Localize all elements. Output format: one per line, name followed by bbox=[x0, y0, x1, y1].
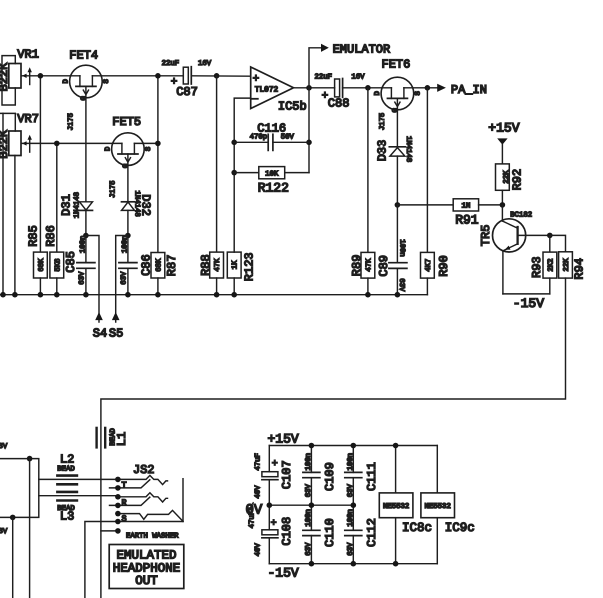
svg-text:8V: 8V bbox=[0, 443, 8, 451]
node dots 0V rail bbox=[267, 502, 273, 508]
svg-text:VR7: VR7 bbox=[17, 112, 39, 126]
svg-text:NE5532: NE5532 bbox=[425, 503, 451, 511]
svg-text:63V: 63V bbox=[305, 483, 313, 497]
inductor bead L2 bbox=[57, 453, 77, 485]
svg-text:B22K: B22K bbox=[0, 129, 11, 159]
wire PA_IN junction down to R90 bbox=[426, 88, 428, 253]
capacitor C116 470p 50V bbox=[234, 122, 309, 151]
svg-text:EMULATOR: EMULATOR bbox=[333, 43, 391, 57]
wire FET4 source to C87 bbox=[92, 75, 183, 77]
wire jack frame right bbox=[182, 479, 184, 522]
svg-text:63V: 63V bbox=[347, 483, 355, 497]
node D33 / R91 / C89 junction bbox=[395, 202, 401, 208]
pin R switch bbox=[110, 497, 150, 505]
svg-text:R94: R94 bbox=[572, 258, 586, 280]
svg-text:G: G bbox=[392, 108, 400, 112]
svg-text:D: D bbox=[105, 146, 113, 151]
svg-text:22K: 22K bbox=[563, 258, 571, 272]
svg-text:D32: D32 bbox=[139, 194, 153, 216]
svg-text:C108: C108 bbox=[280, 517, 294, 546]
arrow PA_IN bbox=[437, 83, 487, 97]
svg-text:R85: R85 bbox=[26, 225, 40, 247]
svg-text:C109: C109 bbox=[323, 462, 337, 491]
svg-text:FET6: FET6 bbox=[382, 57, 411, 71]
potentiometer VR7 bbox=[0, 112, 57, 159]
svg-text:R93: R93 bbox=[530, 256, 544, 278]
resistor R87 68K bbox=[151, 253, 179, 295]
svg-text:FET4: FET4 bbox=[69, 48, 98, 62]
svg-text:T: T bbox=[122, 480, 127, 490]
svg-text:-15V: -15V bbox=[513, 296, 544, 311]
pin T switch bbox=[110, 480, 150, 488]
diode D31 1N4148 bbox=[60, 192, 93, 235]
capacitor C108 47uF 40V bbox=[249, 505, 294, 564]
svg-text:TR5: TR5 bbox=[479, 225, 493, 247]
power +15V rail (supply block) bbox=[268, 431, 438, 446]
arrow to S4 bbox=[93, 312, 107, 341]
svg-text:8V: 8V bbox=[0, 528, 8, 536]
wire to JS2 ring bbox=[39, 495, 118, 497]
svg-text:R: R bbox=[122, 498, 127, 508]
svg-text:S: S bbox=[145, 146, 153, 151]
resistor R91 1M bbox=[397, 199, 502, 228]
svg-text:S4: S4 bbox=[93, 327, 107, 341]
wire to JS2 tip bbox=[39, 478, 118, 480]
connector JS2 headphone jack bbox=[85, 463, 183, 598]
svg-text:1K: 1K bbox=[232, 260, 240, 269]
wire FET5 source to node bbox=[134, 142, 158, 144]
svg-text:IC9c: IC9c bbox=[445, 521, 475, 535]
svg-text:EARTH WASHER: EARTH WASHER bbox=[126, 532, 179, 540]
svg-text:100n: 100n bbox=[347, 453, 355, 471]
svg-text:L3: L3 bbox=[60, 510, 74, 524]
wire node A down through rows to R85 bbox=[39, 76, 41, 252]
svg-text:+15V: +15V bbox=[268, 431, 299, 446]
wire main row A (VR1 wiper to FET4 drain) bbox=[40, 75, 80, 77]
svg-text:C111: C111 bbox=[365, 462, 379, 491]
capacitor C89 100n 63V bbox=[377, 205, 407, 295]
svg-text:100n: 100n bbox=[305, 509, 313, 527]
svg-text:R88: R88 bbox=[199, 254, 213, 276]
wire output up to EMULATOR tap bbox=[309, 48, 321, 88]
inductor bead L1 bbox=[97, 428, 130, 448]
pin R ring contact bbox=[118, 493, 168, 502]
wire op-amp output bbox=[294, 87, 335, 89]
svg-text:+: + bbox=[253, 74, 260, 86]
node PA_IN junction bbox=[425, 85, 431, 91]
svg-text:47K: 47K bbox=[365, 258, 373, 272]
svg-text:68K: 68K bbox=[155, 258, 163, 272]
node dots -15V rail bbox=[309, 561, 315, 567]
svg-text:D: D bbox=[63, 79, 71, 84]
resistor R89 47K bbox=[350, 252, 375, 294]
svg-text:C112: C112 bbox=[365, 518, 379, 547]
svg-text:R86: R86 bbox=[44, 225, 58, 247]
svg-text:C85: C85 bbox=[64, 251, 78, 273]
svg-text:100n: 100n bbox=[79, 236, 87, 254]
svg-text:50V: 50V bbox=[281, 133, 295, 141]
svg-text:47K: 47K bbox=[214, 258, 222, 272]
node TR5 collector junction bbox=[547, 233, 553, 239]
svg-text:40V: 40V bbox=[254, 543, 262, 557]
label box EMULATED HEADPHONE OUT bbox=[109, 545, 184, 589]
wire FET6 source to PA_IN bbox=[404, 87, 438, 89]
svg-text:100n: 100n bbox=[347, 509, 355, 527]
svg-text:BC182: BC182 bbox=[510, 212, 532, 220]
svg-text:L2: L2 bbox=[60, 453, 74, 467]
capacitor C85 100n 63V bbox=[64, 236, 95, 295]
op-amp IC8c NE5532 bbox=[379, 446, 432, 564]
capacitor C86 100n 63V bbox=[119, 236, 154, 295]
svg-text:+15V: +15V bbox=[488, 121, 519, 136]
svg-text:D: D bbox=[374, 91, 382, 96]
svg-text:J175: J175 bbox=[109, 180, 117, 198]
svg-text:100n: 100n bbox=[397, 239, 405, 257]
ground bus wire bbox=[0, 294, 427, 296]
wire R94 down and across to L1 bbox=[101, 278, 566, 598]
power -15V rail (supply block) bbox=[268, 564, 438, 581]
node dots ground bus bbox=[0, 292, 6, 298]
svg-text:16V: 16V bbox=[351, 73, 365, 81]
svg-text:BEAD: BEAD bbox=[57, 466, 75, 474]
wire junction down to R88 bbox=[216, 76, 218, 252]
svg-text:G: G bbox=[123, 164, 131, 168]
node 0V mid rail bbox=[246, 503, 354, 519]
resistor R94 22K bbox=[550, 235, 587, 279]
svg-text:47uF: 47uF bbox=[249, 511, 257, 529]
node output / C116 right bbox=[306, 140, 312, 146]
svg-text:OUT: OUT bbox=[135, 574, 158, 588]
resistor R122 10K bbox=[234, 167, 309, 196]
svg-text:1N4148: 1N4148 bbox=[74, 192, 82, 218]
node lower-left junction bbox=[10, 515, 16, 521]
capacitor C88 22uF 16V bbox=[315, 73, 392, 110]
capacitor C87 22uF 16V bbox=[162, 60, 212, 99]
svg-text:FET5: FET5 bbox=[112, 115, 141, 129]
node FET5 source junction bbox=[155, 141, 161, 147]
transistor FET5 (J175) bbox=[105, 115, 153, 202]
svg-text:PA_IN: PA_IN bbox=[451, 83, 487, 97]
svg-text:63V: 63V bbox=[79, 271, 87, 285]
wire row B (VR7 wiper to FET5 drain) bbox=[57, 142, 122, 144]
node D32/C86 junction with branch to S5 bbox=[116, 233, 131, 322]
svg-text:1N4148: 1N4148 bbox=[404, 136, 412, 162]
node C88 / R89 junction bbox=[365, 85, 371, 91]
op-amp U IC5b TL072 bbox=[251, 67, 307, 114]
svg-text:R92: R92 bbox=[511, 169, 525, 191]
pin T tip contact bbox=[118, 475, 168, 484]
capacitor C109 100n 63V bbox=[303, 446, 337, 506]
svg-text:C110: C110 bbox=[323, 518, 337, 547]
power -15V (TR5 emitter) bbox=[503, 294, 550, 311]
svg-text:R89: R89 bbox=[350, 255, 364, 277]
resistor R88 47K bbox=[199, 252, 223, 295]
capacitor C107 47uF 40V bbox=[254, 446, 294, 506]
node C87 / op-amp + input junction bbox=[214, 73, 220, 79]
svg-text:470p: 470p bbox=[250, 133, 268, 141]
svg-text:TL072: TL072 bbox=[255, 85, 279, 94]
node FET4 source / C87 junction bbox=[155, 73, 161, 79]
wire S switch branch left-down bbox=[85, 522, 118, 598]
svg-text:2K2: 2K2 bbox=[547, 259, 555, 272]
svg-text:+: + bbox=[271, 518, 277, 529]
svg-text:+: + bbox=[272, 459, 278, 470]
svg-text:63V: 63V bbox=[305, 542, 313, 556]
svg-text:C87: C87 bbox=[176, 85, 198, 99]
wire output down to feedback bbox=[308, 88, 310, 173]
wire input net upper-left bbox=[0, 459, 39, 518]
svg-text:16V: 16V bbox=[198, 60, 212, 68]
node dots +15V rail bbox=[309, 443, 315, 449]
node VR7 wiper junction bbox=[54, 141, 60, 147]
transistor FET4 (J175) bbox=[63, 48, 111, 202]
svg-text:JS2: JS2 bbox=[133, 463, 155, 477]
svg-text:5K6: 5K6 bbox=[54, 258, 62, 271]
svg-text:-15V: -15V bbox=[268, 566, 299, 581]
svg-text:B22K: B22K bbox=[0, 62, 11, 92]
svg-text:C88: C88 bbox=[328, 97, 350, 111]
svg-text:S: S bbox=[122, 514, 127, 524]
arrow to S5 bbox=[109, 312, 123, 341]
wire junction down off-page bbox=[29, 459, 31, 598]
wire L1 to earth pin bbox=[101, 530, 118, 532]
svg-text:D33: D33 bbox=[375, 140, 389, 162]
wire C87 to op-amp + input bbox=[191, 75, 250, 77]
svg-text:S: S bbox=[103, 79, 111, 84]
node - input / R122 left bbox=[231, 170, 237, 176]
pin S sleeve contact bbox=[118, 510, 183, 521]
svg-text:63V: 63V bbox=[397, 278, 405, 292]
node EMULATOR arrow bbox=[321, 43, 390, 57]
node - input / C116 left bbox=[231, 140, 237, 146]
svg-text:68K: 68K bbox=[38, 258, 46, 272]
svg-text:NE5532: NE5532 bbox=[383, 503, 409, 511]
svg-text:22uF: 22uF bbox=[162, 60, 180, 68]
transistor FET6 (J175) bbox=[374, 57, 422, 146]
node R91/R92/TR5 base junction bbox=[500, 202, 506, 208]
diode D33 1N4148 bbox=[375, 136, 412, 205]
wire FET4/FET5 source join down to R87 bbox=[157, 76, 159, 253]
svg-text:R123: R123 bbox=[242, 252, 256, 281]
resistor R123 1K bbox=[227, 252, 256, 295]
node D31/C85 junction with branch to S4 bbox=[83, 233, 99, 322]
capacitor C110 100n 63V bbox=[303, 505, 337, 564]
svg-text:100n: 100n bbox=[121, 236, 129, 254]
capacitor C112 100n 63V bbox=[345, 505, 379, 564]
inductor bead L3 bbox=[57, 492, 77, 524]
node upper-left junction bbox=[27, 456, 33, 462]
resistor R86 5K6 bbox=[44, 225, 64, 295]
node VR1 wiper junction bbox=[38, 73, 44, 79]
svg-text:1M: 1M bbox=[462, 203, 471, 211]
svg-text:10K: 10K bbox=[265, 170, 279, 178]
node output junction bbox=[306, 85, 312, 91]
svg-text:R122: R122 bbox=[258, 181, 289, 196]
power +15V (TR5 collector supply) bbox=[488, 121, 519, 164]
resistor R92 22K bbox=[496, 164, 525, 205]
svg-text:IC8c: IC8c bbox=[402, 521, 432, 535]
resistor R93 2K2 bbox=[530, 235, 557, 294]
transistor TR5 BC182 bbox=[479, 205, 550, 294]
svg-text:40V: 40V bbox=[254, 485, 262, 499]
svg-text:J175: J175 bbox=[379, 113, 387, 131]
svg-text:IC5b: IC5b bbox=[278, 100, 307, 114]
svg-text:R91: R91 bbox=[455, 213, 479, 228]
svg-text:22uF: 22uF bbox=[315, 73, 333, 81]
wire junction down off-page bbox=[12, 517, 14, 598]
wire node B down to R86 bbox=[56, 143, 58, 252]
pin S switch wire bbox=[118, 521, 183, 523]
resistor R90 4K7 bbox=[421, 252, 451, 294]
svg-text:L1: L1 bbox=[115, 432, 129, 446]
wire VR7 top to ground bbox=[2, 113, 4, 294]
svg-text:C89: C89 bbox=[377, 255, 391, 277]
svg-text:63V: 63V bbox=[347, 542, 355, 556]
svg-text:63V: 63V bbox=[121, 271, 129, 285]
svg-text:G: G bbox=[81, 96, 89, 100]
svg-text:J175: J175 bbox=[68, 113, 76, 131]
svg-text:S: S bbox=[414, 91, 422, 96]
pin dots JS2 bbox=[115, 477, 121, 483]
resistor R85 68K bbox=[26, 225, 47, 295]
capacitor C111 100n 63V bbox=[345, 446, 379, 506]
svg-text:D31: D31 bbox=[60, 194, 74, 216]
svg-text:C107: C107 bbox=[280, 460, 294, 489]
wire junction down to R89 bbox=[367, 88, 369, 253]
wire VR7 bottom to ground bbox=[14, 156, 16, 295]
wire op-amp - input feedback bbox=[234, 98, 251, 252]
diode D32 1N4148 bbox=[122, 191, 153, 236]
svg-text:VR1: VR1 bbox=[17, 48, 39, 62]
svg-text:R90: R90 bbox=[437, 255, 451, 277]
svg-text:100n: 100n bbox=[305, 453, 313, 471]
svg-text:47uF: 47uF bbox=[254, 453, 262, 471]
op-amp IC9c NE5532 bbox=[421, 446, 475, 564]
svg-text:S5: S5 bbox=[109, 327, 123, 341]
svg-text:R87: R87 bbox=[165, 255, 179, 277]
svg-text:4K7: 4K7 bbox=[425, 259, 433, 272]
potentiometer VR1 bbox=[0, 48, 40, 105]
